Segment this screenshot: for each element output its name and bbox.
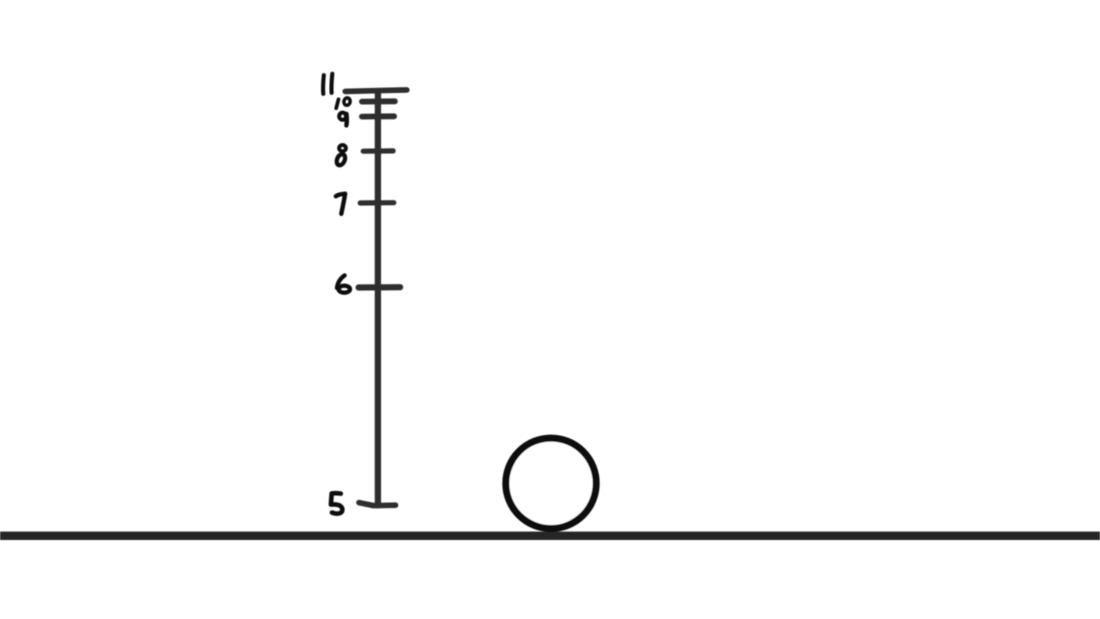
- label 11: [323, 74, 332, 94]
- ball: [506, 438, 596, 528]
- tick 11: [345, 90, 407, 92]
- label 8: [335, 145, 347, 167]
- tick 9: [362, 113, 394, 119]
- label 6: [337, 275, 350, 292]
- label 10: [336, 97, 351, 108]
- tick 7: [360, 200, 394, 206]
- label 9: [339, 113, 347, 126]
- ruler stem: [375, 92, 381, 505]
- ground line: [0, 532, 1100, 540]
- tick 8: [363, 148, 393, 154]
- tick 6: [359, 284, 401, 290]
- label 7: [336, 194, 345, 214]
- label 5: [331, 493, 342, 513]
- tick 5: [359, 503, 396, 506]
- tick 10: [362, 98, 395, 104]
